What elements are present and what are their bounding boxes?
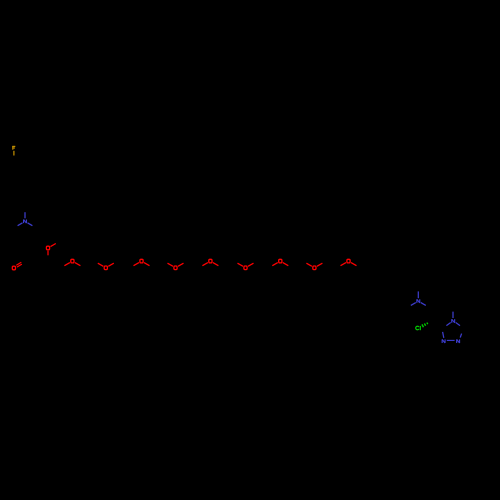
atom O ether #1 of PEG chain — [71, 259, 74, 263]
bond N-C down-right colored half — [28, 223, 33, 226]
double bond C=O line 2 — [17, 264, 22, 267]
atom N amine (left) — [24, 220, 27, 224]
bond O8-C right colored half — [317, 263, 323, 266]
bond O1-C left colored half — [64, 263, 70, 266]
bond O6-C left colored half — [238, 263, 244, 266]
bond N4-C5 colored half — [446, 323, 450, 326]
atom O carbonyl — [12, 266, 15, 270]
bond O7-C left colored half — [272, 263, 278, 266]
atom N amine (right, N-methyl) — [417, 299, 420, 303]
bond C3-N2 colored half — [460, 334, 461, 338]
double bond C=O line 1 — [16, 262, 21, 265]
bond O6-C right colored half — [248, 263, 254, 266]
atom N2 triazole (bottom right) — [457, 339, 460, 343]
bond O3-C right colored half — [144, 263, 150, 266]
bond O2-C right colored half — [108, 263, 114, 266]
bond N-CH2 down-left colored half — [411, 303, 416, 306]
atom O ether #2 of PEG chain — [104, 266, 107, 270]
bond N-CH2 down-right colored half — [421, 303, 426, 306]
bond O9-C right colored half — [351, 263, 357, 266]
hashed wedge dash 3 C-Cl — [426, 323, 429, 325]
atom O ether #6 of PEG chain — [244, 266, 247, 270]
bond O4-C left colored half — [168, 263, 174, 266]
bond O8-C left colored half — [306, 263, 312, 266]
atom O ether #9 of PEG chain — [347, 259, 350, 263]
bond O-CH3 colored half — [51, 244, 56, 247]
bond N-CH2 up colored half — [24, 212, 26, 218]
atom F (fluorine on phenyl ring) — [12, 146, 15, 150]
bond O9-C left colored half — [341, 263, 347, 266]
bond N-CH3 up colored half — [417, 291, 419, 298]
atom O ether #4 of PEG chain — [174, 266, 177, 270]
atom O ether #5 of PEG chain — [209, 259, 212, 263]
hashed wedge dash 2 C-Cl — [424, 323, 425, 325]
bond O1-C right colored half — [75, 263, 81, 266]
bond N4-CH3 up colored half — [452, 312, 454, 318]
bond N4-C3 colored half — [456, 323, 460, 326]
atom N4 triazole (top, N-methyl) — [452, 319, 455, 323]
bond O4-C right colored half — [178, 263, 184, 266]
atom N1 triazole (bottom left) — [442, 339, 445, 343]
bond O3-C left colored half — [134, 263, 140, 266]
atom O ether #7 of PEG chain — [279, 259, 282, 263]
atom O ether #8 of PEG chain — [313, 266, 316, 270]
bond N-C down-left colored half — [18, 223, 23, 226]
atom O ether #3 of PEG chain — [140, 259, 143, 263]
bond N1-N2 colored — [447, 339, 455, 341]
bond O-C(aryl) colored half — [47, 251, 49, 256]
bond O7-C right colored half — [283, 263, 289, 266]
bond O5-C right colored half — [213, 263, 219, 266]
bond C5-N1 colored half — [443, 332, 444, 338]
hashed wedge dash 1 C-Cl — [422, 324, 424, 327]
atom O methoxy — [46, 246, 49, 250]
bond F-C(aryl) colored half — [13, 151, 15, 156]
atom Cl (chlorine, hashed wedge) — [416, 326, 421, 330]
bond O5-C left colored half — [202, 263, 208, 266]
bond O2-C left colored half — [98, 263, 104, 266]
